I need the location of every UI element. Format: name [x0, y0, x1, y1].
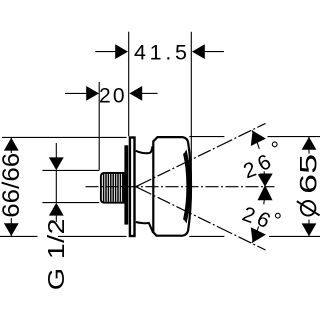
dimension 41.5: [95, 40, 224, 64]
face inner arc: [184, 154, 187, 220]
svg-text:66/66: 66/66: [0, 153, 25, 218]
head body: [153, 137, 191, 236]
centerline: [86, 186, 275, 188]
dimension 20: [65, 85, 158, 108]
spray ray upper 26deg: [136, 123, 266, 186]
ext line dia65 bottom: [189, 235, 320, 237]
diameter symbol circle: [301, 201, 316, 216]
dimension G 1/2: [43, 143, 70, 290]
dimension 66/66 left: [0, 138, 25, 236]
wall disc behind flange: [124, 145, 128, 224]
diameter symbol slash: [297, 201, 320, 215]
angle dim arc upper: [251, 130, 273, 187]
ext line 41.5 right: [190, 32, 192, 187]
svg-text:20: 20: [99, 85, 127, 108]
spray ray lower 26deg: [136, 187, 266, 250]
angle dim arc lower: [251, 185, 273, 243]
ext line 66/66 top: [2, 136, 127, 138]
flange escutcheon: [130, 138, 135, 237]
ext line shared 41.5/20: [128, 32, 130, 137]
ext line 20 left: [98, 82, 100, 170]
label 26deg upper: [237, 142, 283, 180]
label 26deg lower: [239, 197, 285, 235]
thread ext line bottom: [42, 202, 99, 204]
svg-text:41.5: 41.5: [134, 40, 187, 64]
svg-text:G 1/2: G 1/2: [43, 218, 70, 290]
ext line dia65 top: [189, 136, 320, 138]
neck bottom edge: [136, 222, 153, 233]
face mid band: [184, 150, 191, 224]
svg-text:65: 65: [296, 154, 320, 194]
ext line 66/66 bottom: [0, 235, 127, 237]
neck top edge: [136, 146, 153, 153]
dimension dia 65 right: [296, 137, 320, 236]
thread ext line top: [42, 169, 99, 171]
thread G1/2 nipple: [101, 173, 125, 203]
